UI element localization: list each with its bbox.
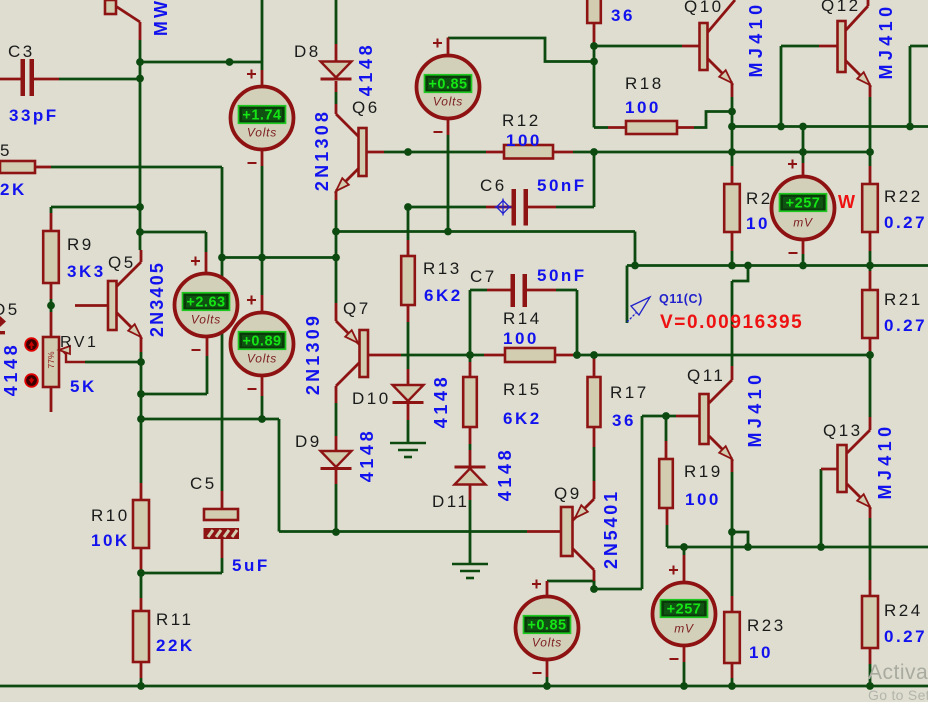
svg-text:33pF: 33pF [9, 106, 59, 125]
svg-text:MJ410: MJ410 [876, 2, 896, 79]
svg-text:R14: R14 [503, 309, 542, 328]
svg-text:6K2: 6K2 [503, 409, 542, 428]
svg-text:mV: mV [674, 622, 694, 636]
svg-text:2N1308: 2N1308 [312, 109, 332, 191]
svg-text:MW: MW [151, 0, 171, 36]
svg-text:6K2: 6K2 [424, 286, 463, 305]
svg-text:Q12: Q12 [821, 0, 861, 15]
svg-text:R9: R9 [67, 235, 94, 254]
svg-text:R15: R15 [503, 380, 542, 399]
svg-text:D9: D9 [295, 432, 322, 451]
svg-text:C3: C3 [8, 42, 35, 61]
svg-text:0.27: 0.27 [884, 316, 927, 335]
svg-text:3K3: 3K3 [67, 262, 106, 281]
svg-text:2N5401: 2N5401 [601, 489, 621, 569]
svg-text:MJ410: MJ410 [875, 422, 895, 499]
svg-text:100: 100 [685, 490, 721, 509]
svg-text:Q5: Q5 [108, 253, 136, 272]
svg-text:Q10: Q10 [684, 0, 724, 16]
svg-text:Go to Set: Go to Set [868, 687, 928, 702]
svg-text:0.27: 0.27 [884, 627, 927, 646]
svg-text:5: 5 [0, 141, 12, 160]
svg-text:Q6: Q6 [352, 98, 380, 117]
svg-text:Q7: Q7 [343, 299, 371, 318]
svg-text:100: 100 [506, 131, 542, 150]
svg-text:R24: R24 [884, 601, 923, 620]
svg-text:Volts: Volts [532, 636, 562, 650]
svg-text:MJ410: MJ410 [745, 370, 765, 447]
svg-text:Volts: Volts [247, 352, 277, 366]
svg-text:5uF: 5uF [232, 556, 270, 575]
svg-text:+0.85: +0.85 [527, 618, 566, 634]
svg-text:Volts: Volts [191, 313, 221, 327]
svg-text:R21: R21 [884, 290, 923, 309]
svg-text:2N3405: 2N3405 [147, 261, 167, 337]
svg-text:+2.63: +2.63 [186, 295, 225, 311]
svg-text:D10: D10 [352, 389, 391, 408]
svg-text:4148: 4148 [431, 374, 451, 428]
svg-text:+1.74: +1.74 [242, 108, 281, 124]
svg-text:V=0.00916395: V=0.00916395 [660, 312, 803, 333]
svg-text:R17: R17 [610, 383, 649, 402]
svg-text:100: 100 [503, 329, 539, 348]
svg-text:4148: 4148 [495, 447, 515, 501]
svg-text:C6: C6 [480, 176, 507, 195]
svg-text:0.27: 0.27 [884, 213, 927, 232]
svg-text:W: W [838, 192, 855, 212]
svg-text:+257: +257 [786, 196, 821, 212]
svg-text:D11: D11 [432, 492, 469, 511]
svg-text:Q11: Q11 [687, 366, 725, 385]
svg-text:R23: R23 [747, 616, 786, 635]
svg-text:36: 36 [612, 411, 636, 430]
svg-text:4148: 4148 [1, 342, 21, 396]
svg-text:4148: 4148 [357, 428, 377, 482]
svg-text:R12: R12 [502, 111, 541, 130]
svg-text:C7: C7 [470, 267, 497, 286]
svg-text:Q9: Q9 [554, 484, 582, 503]
svg-text:50nF: 50nF [537, 266, 587, 285]
svg-text:Q11(C): Q11(C) [659, 292, 703, 306]
svg-text:R22: R22 [884, 187, 923, 206]
svg-text:Volts: Volts [433, 95, 463, 109]
svg-text:100: 100 [625, 98, 661, 117]
svg-text:+257: +257 [667, 602, 702, 618]
svg-text:10K: 10K [91, 531, 130, 550]
svg-text:R19: R19 [684, 462, 723, 481]
svg-text:10: 10 [746, 214, 770, 233]
svg-text:D8: D8 [294, 42, 321, 61]
svg-text:MJ410: MJ410 [746, 0, 766, 77]
svg-text:50nF: 50nF [537, 176, 587, 195]
svg-text:Q13: Q13 [823, 421, 863, 440]
svg-text:Volts: Volts [247, 126, 277, 140]
svg-text:C5: C5 [190, 474, 217, 493]
svg-text:4148: 4148 [356, 42, 376, 96]
svg-text:5K: 5K [70, 377, 97, 396]
svg-text:77%: 77% [46, 351, 56, 368]
svg-text:R18: R18 [625, 74, 664, 93]
svg-text:2K: 2K [0, 180, 27, 199]
svg-text:22K: 22K [156, 636, 195, 655]
svg-text:R13: R13 [423, 259, 462, 278]
svg-text:+0.89: +0.89 [242, 334, 281, 350]
svg-text:10: 10 [749, 643, 773, 662]
svg-text:2N1309: 2N1309 [303, 313, 323, 395]
svg-text:RV1: RV1 [60, 334, 98, 351]
svg-text:D5: D5 [0, 300, 20, 319]
svg-text:R10: R10 [91, 506, 130, 525]
svg-text:+0.85: +0.85 [428, 77, 467, 93]
svg-text:36: 36 [611, 6, 635, 25]
svg-text:mV: mV [793, 216, 813, 230]
svg-text:R11: R11 [156, 610, 193, 629]
svg-text:Activat: Activat [868, 661, 928, 684]
